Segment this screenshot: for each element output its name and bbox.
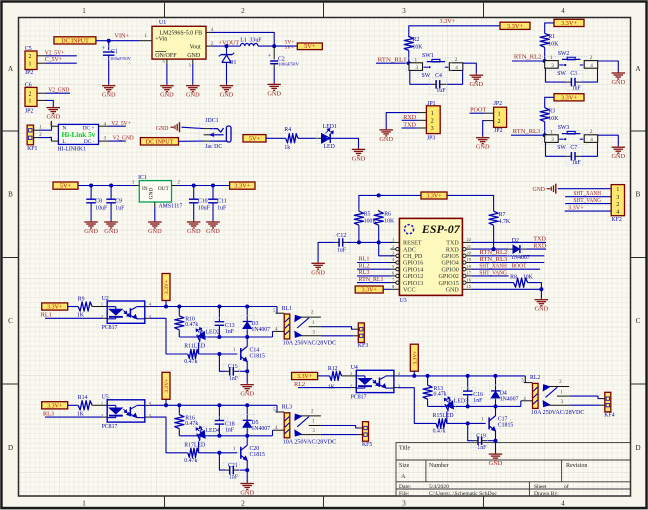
svg-text:R5: R5 (364, 211, 371, 217)
wire RTN_RL2 (512, 60, 545, 62)
svg-text:GPIO13: GPIO13 (403, 281, 423, 287)
svg-text:1uF: 1uF (115, 206, 125, 212)
svg-text:RL2: RL2 (294, 381, 305, 388)
svg-text:IC1: IC1 (138, 175, 147, 181)
svg-text:LED: LED (324, 144, 335, 150)
wire C12 to RESET (347, 241, 394, 243)
svg-text:GND: GND (469, 81, 483, 88)
svg-text:C1815: C1815 (498, 423, 514, 429)
wire R12 to U4 (342, 375, 357, 377)
pin U1.3 wire gnd (188, 59, 192, 84)
svg-text:C1815: C1815 (250, 452, 266, 458)
svg-text:L: L (62, 139, 65, 145)
svg-text:C11: C11 (217, 198, 227, 204)
wire base C14 (199, 352, 238, 356)
ground LED1 (352, 148, 366, 162)
regulator U1 LM2596S-5.0 (152, 20, 206, 59)
svg-text:C: C (636, 317, 641, 325)
svg-text:GND: GND (379, 136, 393, 143)
svg-text:5V+: 5V+ (304, 43, 316, 50)
svg-text:Jac DC: Jac DC (205, 144, 222, 150)
wire RTN_RL3 (511, 134, 545, 136)
svg-text:R11LED: R11LED (184, 344, 205, 350)
svg-text:V2_GND: V2_GND (113, 134, 134, 141)
svg-text:10K: 10K (413, 44, 424, 50)
svg-text:3.3V+: 3.3V+ (47, 305, 63, 311)
capacitor C15 (219, 354, 247, 382)
svg-text:1: 1 (82, 500, 86, 508)
svg-text:GPIO12: GPIO12 (403, 274, 423, 280)
svg-text:SW2: SW2 (558, 51, 570, 57)
svg-text:RTN_RL2: RTN_RL2 (514, 53, 542, 60)
svg-text:Drawn By:: Drawn By: (534, 491, 559, 497)
node C10 junction (192, 184, 196, 188)
svg-text:File:: File: (399, 491, 410, 497)
wire RL3 to U5 (45, 416, 107, 418)
svg-text:4: 4 (616, 209, 619, 215)
svg-text:R17LED: R17LED (184, 442, 205, 448)
wire DC INPUT to VIN+ node (96, 40, 140, 42)
svg-text:D1: D1 (229, 60, 236, 66)
svg-text:2: 2 (392, 244, 394, 249)
node C8 junction (89, 184, 93, 188)
svg-text:VIN+: VIN+ (115, 33, 130, 40)
svg-text:10A 250VAC/28VDC: 10A 250VAC/28VDC (283, 341, 337, 347)
wire contacts to KF4 (569, 396, 600, 405)
wire SHT_VANG net (471, 269, 508, 276)
wire net RTN_RL1 to ESP (357, 276, 390, 283)
wire to 5V+ port (274, 45, 297, 47)
svg-text:GND: GND (156, 126, 169, 132)
svg-text:GND: GND (535, 306, 549, 313)
ground JP2 (476, 136, 490, 150)
svg-text:GPIO14: GPIO14 (403, 267, 423, 273)
svg-text:GND: GND (148, 228, 162, 235)
svg-text:2: 2 (241, 500, 245, 508)
svg-text:2: 2 (455, 57, 458, 63)
wire LED1 to gnd (330, 138, 358, 148)
svg-text:RTN_RL1: RTN_RL1 (359, 276, 384, 283)
wire 3.3V rail ESP (359, 193, 494, 210)
svg-text:GND: GND (149, 188, 155, 200)
wire R7 to RXD row (492, 227, 496, 252)
wire SHT_VANG KF2 (565, 197, 611, 204)
regulator IC1 AMS1117 (138, 175, 182, 210)
svg-text:R9: R9 (78, 296, 85, 302)
svg-text:BOOT: BOOT (512, 263, 527, 270)
svg-text:1: 1 (350, 371, 352, 376)
svg-text:R14: R14 (78, 395, 88, 401)
ground D1 (220, 84, 234, 98)
svg-text:100uF/50V: 100uF/50V (110, 56, 132, 61)
wire IC1 out to 3.3V (172, 180, 230, 185)
svg-text:21: 21 (467, 244, 471, 249)
wire 5V to R4 (266, 137, 286, 139)
svg-text:PC817: PC817 (351, 394, 367, 400)
svg-text:10K: 10K (548, 41, 559, 47)
capacitor C11 (208, 186, 227, 221)
resistor R13 (423, 376, 447, 407)
svg-text:C5: C5 (25, 46, 32, 52)
svg-text:GND: GND (102, 92, 116, 99)
header JP2 (boot) (485, 101, 507, 134)
svg-text:OUT: OUT (158, 186, 170, 192)
svg-text:10K: 10K (548, 116, 559, 122)
switch SW3 (545, 125, 626, 166)
wire R1 to SW2 (543, 47, 547, 63)
svg-text:2: 2 (431, 119, 434, 125)
ground C12 (311, 262, 325, 276)
svg-text:1: 1 (616, 187, 619, 193)
svg-text:C3: C3 (570, 71, 577, 77)
svg-text:LED2: LED2 (206, 329, 220, 335)
resistor R11LED (184, 344, 205, 366)
power port 5V+ (top) (297, 43, 322, 50)
svg-text:D: D (8, 444, 13, 452)
svg-text:VCC: VCC (403, 288, 416, 294)
relay RL1 contacts (295, 311, 321, 338)
svg-text:1: 1 (29, 99, 32, 105)
wire RTN_RL3 net (471, 256, 544, 263)
svg-text:1: 1 (101, 400, 103, 405)
label rating RL3 (283, 439, 337, 445)
ground ESP (535, 298, 549, 312)
svg-text:N: N (62, 125, 66, 131)
svg-text:RL1: RL1 (282, 306, 292, 312)
svg-text:V2_5V+: V2_5V+ (111, 120, 131, 127)
svg-text:2: 2 (616, 202, 619, 208)
wire base C20 (199, 451, 238, 455)
wire base C17 (447, 421, 486, 425)
resistor R5 (354, 210, 377, 227)
capacitor C19 (468, 423, 496, 451)
wire gnd to jack (182, 127, 204, 128)
svg-text:1N4007: 1N4007 (251, 327, 270, 333)
ground C17 emitter (489, 453, 503, 467)
power port 3.3V+ (U2) (42, 303, 68, 311)
svg-text:10A 250VAC/28VDC: 10A 250VAC/28VDC (283, 439, 337, 445)
optocoupler U2 PC817 (101, 296, 152, 331)
svg-text:10uF: 10uF (198, 206, 211, 212)
wire port to R3 (545, 97, 554, 108)
node L1 out junction (272, 44, 276, 48)
svg-text:3: 3 (616, 195, 619, 201)
svg-text:Revision: Revision (566, 463, 587, 469)
svg-text:4: 4 (561, 500, 565, 508)
svg-text:4: 4 (590, 63, 593, 69)
capacitor C10 (189, 186, 211, 221)
svg-text:SHT_VANG: SHT_VANG (574, 197, 602, 204)
svg-text:1nF: 1nF (477, 445, 487, 451)
svg-text:1: 1 (550, 55, 553, 61)
resistor R4 (284, 127, 298, 151)
svg-text:1N4007: 1N4007 (500, 397, 519, 403)
svg-text:of: of (564, 483, 569, 490)
svg-text:B: B (636, 191, 641, 199)
svg-text:2: 2 (350, 383, 352, 388)
svg-text:IN: IN (142, 186, 148, 192)
svg-text:2: 2 (590, 55, 593, 61)
svg-text:RTN_RL3: RTN_RL3 (513, 128, 541, 135)
svg-text:JDC1: JDC1 (205, 118, 218, 124)
svg-text:1uF: 1uF (217, 206, 227, 212)
svg-text:2: 2 (498, 119, 501, 125)
svg-text:3: 3 (551, 137, 554, 143)
optocoupler U5 PC817 (101, 395, 152, 430)
svg-text:C1815: C1815 (250, 353, 266, 359)
ground C14 emitter (240, 383, 254, 397)
svg-text:GND: GND (352, 155, 366, 162)
barrel jack JDC1 (204, 118, 231, 150)
wire contacts to KF3 (321, 327, 353, 336)
svg-text:GPIO0: GPIO0 (442, 267, 459, 273)
svg-text:2: 2 (29, 91, 32, 97)
svg-text:JP2: JP2 (494, 128, 502, 134)
wire TXD (402, 122, 418, 129)
svg-text:Vout: Vout (190, 44, 202, 50)
svg-text:C_5V+: C_5V+ (45, 56, 63, 63)
svg-text:RESET: RESET (403, 241, 422, 247)
connector KF2 (611, 185, 624, 223)
wire RXD to D2 (471, 247, 508, 251)
svg-text:1nF: 1nF (225, 428, 235, 434)
svg-text:HI-LINHK1: HI-LINHK1 (58, 146, 86, 152)
svg-text:Number: Number (429, 463, 449, 469)
svg-text:R6: R6 (384, 211, 391, 217)
svg-text:U4: U4 (351, 365, 358, 371)
svg-text:3.3V+: 3.3V+ (568, 205, 584, 212)
wire RXD net (526, 243, 547, 250)
ground C2 (267, 83, 281, 97)
wire coil row RL1 (179, 335, 272, 339)
svg-text:GND: GND (240, 490, 254, 497)
svg-text:3.3V+: 3.3V+ (362, 287, 378, 293)
wire RXD (402, 114, 418, 121)
diode D3 (243, 307, 270, 338)
wire C12 left to gnd (318, 242, 335, 262)
svg-text:KF5: KF5 (362, 442, 372, 448)
net label RL2 (U4) (294, 381, 305, 388)
node C9 junction (109, 184, 113, 188)
svg-text:C4: C4 (435, 73, 442, 79)
wire R8 to gnd (528, 283, 543, 292)
svg-text:GND: GND (186, 92, 200, 99)
svg-text:1: 1 (431, 111, 434, 117)
svg-text:Title: Title (399, 446, 410, 452)
svg-text:1: 1 (101, 302, 103, 307)
wire SHT_XANH BOOT net (471, 263, 540, 270)
wire KF1 to HiLink (39, 121, 52, 141)
power port 3.3V+ (SW2) (554, 19, 584, 27)
wire opto to R15LED (398, 388, 436, 424)
svg-text:KF4: KF4 (604, 413, 614, 419)
svg-text:CH_PD: CH_PD (403, 254, 423, 260)
wire port to R14 (68, 404, 77, 406)
svg-text:1nF: 1nF (229, 475, 239, 481)
wire dcinput to jack (179, 140, 204, 142)
connector KF5 (358, 422, 373, 448)
svg-text:2: 2 (101, 314, 103, 319)
wire R6 to CH_PD (377, 227, 394, 256)
svg-text:5V+: 5V+ (249, 135, 261, 142)
wire port to R12 (318, 375, 330, 377)
svg-text:GPIO02: GPIO02 (438, 274, 458, 280)
wire net RL1 to ESP (357, 256, 390, 263)
svg-text:ESP-07: ESP-07 (421, 222, 461, 236)
connector KF3 (353, 323, 368, 349)
pin U1.1 wire (140, 34, 152, 41)
net label RL1 (U2) (41, 312, 52, 319)
wire coil row RL3 (179, 434, 272, 438)
capacitor C2 (268, 46, 300, 83)
svg-text:DC INPUT: DC INPUT (146, 139, 174, 145)
ground C6 (46, 106, 60, 120)
resistor R10 (175, 307, 199, 338)
power port DC INPUT (jack) (140, 138, 178, 146)
svg-text:GND: GND (46, 114, 60, 121)
svg-text:R2: R2 (413, 37, 420, 43)
net label +VOUT (219, 40, 240, 47)
svg-text:R7: R7 (499, 212, 506, 218)
resistor R9 (77, 296, 93, 318)
svg-text:3.3V+: 3.3V+ (47, 403, 63, 409)
power port 3.3V+ (U4) (292, 372, 318, 380)
module U3 ESP-07 (390, 218, 471, 303)
led LED4 (196, 426, 220, 453)
wire POOT (470, 112, 485, 114)
wire SHT_XANH KF2 (565, 190, 611, 197)
svg-text:JP3: JP3 (427, 136, 435, 142)
svg-text:GPIO4: GPIO4 (442, 261, 459, 267)
wire RL2 to U4 (298, 387, 356, 389)
switch SW1 (409, 53, 484, 94)
resistor R8 (510, 274, 534, 287)
svg-text:GND: GND (311, 269, 325, 276)
ground JP1 (379, 129, 393, 143)
svg-text:AMS1117: AMS1117 (159, 204, 183, 210)
capacitor C9 (106, 186, 125, 221)
pin U1.5 wire gnd (163, 59, 167, 84)
svg-text:3.3V+: 3.3V+ (164, 379, 170, 393)
svg-text:0.47k: 0.47k (184, 359, 197, 365)
svg-text:LED1: LED1 (323, 124, 337, 130)
svg-text:4: 4 (590, 137, 593, 143)
label rating RL1 (283, 341, 337, 347)
capacitor C21 (219, 453, 247, 481)
svg-text:100uF50V: 100uF50V (278, 61, 300, 66)
ground C11 (206, 221, 220, 235)
svg-text:SW: SW (422, 73, 431, 79)
svg-text:GPIO16: GPIO16 (403, 261, 423, 267)
net label RTN_RL1 (378, 56, 407, 63)
optocoupler U4 PC817 (350, 365, 401, 400)
svg-text:JP1: JP1 (427, 101, 435, 107)
wire ESP GND pin (471, 289, 541, 298)
svg-text:JP2: JP2 (25, 109, 33, 115)
svg-text:3.3V+: 3.3V+ (164, 280, 170, 294)
header C5 JP2 (25, 46, 46, 76)
svg-text:RL1: RL1 (41, 312, 52, 319)
wire 3.3V rail R2 (409, 18, 500, 37)
svg-text:GND: GND (240, 391, 254, 398)
svg-text:22: 22 (467, 237, 471, 242)
header JP1/JP3 (417, 101, 440, 142)
svg-text:0.47k: 0.47k (184, 458, 197, 464)
svg-text:5/4/2020: 5/4/2020 (429, 484, 449, 490)
svg-text:SW: SW (557, 71, 566, 77)
ground C10 (187, 221, 201, 235)
power port 3.3V+ (IC1) (230, 182, 255, 190)
led LED3 (444, 397, 468, 424)
svg-text:SHT_VANG: SHT_VANG (479, 269, 507, 276)
wire port to R1 (545, 23, 554, 34)
svg-text:1nF: 1nF (473, 398, 483, 404)
svg-text:DC -: DC - (84, 139, 95, 145)
net label RTN_RL3 (513, 128, 541, 135)
svg-text:RTN_RL1: RTN_RL1 (378, 56, 407, 63)
wire R14 to U5 (93, 404, 107, 406)
svg-text:GND: GND (220, 92, 234, 99)
svg-text:U2: U2 (102, 296, 109, 302)
svg-text:1nF: 1nF (225, 329, 235, 335)
svg-text:1N4007: 1N4007 (251, 426, 270, 432)
svg-text:GND: GND (611, 79, 625, 86)
net label POOT (470, 107, 486, 114)
power port 3.3V+ (ESP rail) (421, 192, 447, 199)
svg-text:10uF: 10uF (95, 206, 108, 212)
wire RTN_RL1 (376, 62, 409, 64)
svg-text:ON/OFF: ON/OFF (155, 53, 177, 59)
wire 5V to IC1 (78, 180, 139, 185)
wire C5 pin2 V2_5V+ (45, 49, 77, 56)
ground C9 (104, 221, 118, 235)
capacitor C8 (86, 186, 108, 221)
node C11 junction (211, 184, 215, 188)
svg-text:A: A (8, 65, 13, 73)
svg-text:RL3: RL3 (282, 405, 292, 411)
svg-text:RXD: RXD (403, 114, 417, 121)
svg-text:JP2: JP2 (494, 101, 502, 107)
svg-text:A: A (635, 65, 640, 73)
connector KF1 (27, 125, 39, 152)
relay RL3 coil (273, 405, 293, 438)
svg-text:R8: R8 (510, 274, 517, 280)
svg-text:RL3: RL3 (43, 411, 54, 418)
svg-text:2: 2 (29, 54, 32, 60)
svg-text:3.3V+: 3.3V+ (297, 374, 313, 380)
svg-text:RL2: RL2 (530, 375, 540, 381)
svg-text:1: 1 (82, 7, 86, 15)
svg-text:Date:: Date: (399, 484, 412, 490)
svg-text:C: C (8, 317, 13, 325)
resistor R17LED (184, 442, 205, 464)
svg-text:5V+: 5V+ (60, 183, 72, 190)
net label RL3 (U5) (43, 411, 54, 418)
svg-text:3: 3 (551, 63, 554, 69)
svg-text:U5: U5 (102, 395, 109, 401)
power port 3.3V+ (SW3) (554, 94, 584, 102)
svg-text:GND: GND (446, 288, 460, 294)
wire port to R9 (68, 306, 77, 308)
svg-text:C10: C10 (198, 198, 208, 204)
wire net RL3 to ESP (357, 269, 390, 276)
svg-text:4: 4 (455, 65, 458, 71)
svg-text:R12: R12 (328, 366, 338, 372)
svg-text:GND: GND (489, 460, 503, 467)
wire RL1 to U2 (45, 317, 107, 319)
net label 5V+ x2 (285, 39, 295, 50)
svg-text:RXD: RXD (446, 247, 459, 253)
